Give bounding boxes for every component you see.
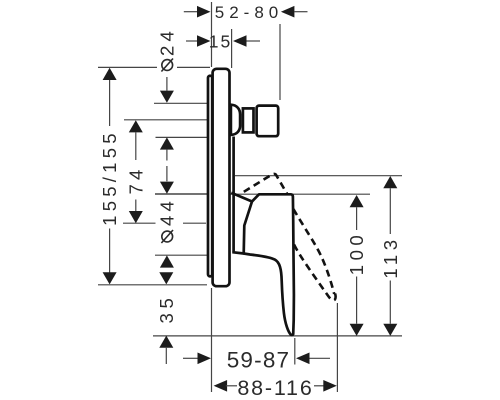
lever handle (solid) xyxy=(244,194,294,335)
wire: extension line x=280 for 52-80 right xyxy=(279,24,281,100)
dimension 52-80 xyxy=(184,3,308,22)
stub dome on plate face xyxy=(231,105,240,135)
stub cylinder xyxy=(243,108,254,132)
svg-text:88-116: 88-116 xyxy=(237,376,313,400)
dashed lever (open position): top edge xyxy=(244,174,287,194)
dimension 113 (stem x=390.3) xyxy=(380,176,401,336)
wire: extension line y=175.7 (dashed lever top) xyxy=(235,175,402,177)
escutcheon plate xyxy=(213,69,230,286)
dimension 59-87 xyxy=(183,348,330,373)
wire: extension line x=294.8 (handle tip) xyxy=(294,338,296,365)
svg-text:24: 24 xyxy=(156,27,177,56)
fixture: extension line y=194.2 (lever top plane, drawn before fixture) xyxy=(155,193,370,195)
wire: extension line x=231.6 for 15 xyxy=(231,29,233,68)
svg-text:35: 35 xyxy=(156,294,177,324)
wire: extension line y=223.2 (cartridge axis) xyxy=(123,222,156,224)
dimension 88-116 xyxy=(214,376,337,400)
wire: extension line y=255.2 (cone bottom) xyxy=(155,254,209,256)
cartridge sleeve line xyxy=(232,137,235,253)
handle cone top edge xyxy=(231,193,252,202)
dashed lever: blade right edge xyxy=(293,209,334,294)
dimension 74 (stem x=135.8) xyxy=(125,120,146,223)
svg-text:74: 74 xyxy=(125,165,146,194)
svg-text:113: 113 xyxy=(380,235,401,278)
svg-text:52-80: 52-80 xyxy=(215,3,283,22)
wire: extension line y=137.4 (stub bottom) xyxy=(156,136,209,138)
dimension 100 (stem x=356.6) xyxy=(346,195,367,336)
stub end block xyxy=(257,106,279,137)
svg-text:44: 44 xyxy=(156,197,177,226)
wire: extension line y=193.8 (cone top, left part) xyxy=(155,193,209,195)
wall flange (behind plate) xyxy=(208,76,212,277)
handle cone bottom edge xyxy=(232,252,243,253)
dimension 35 (col x=166.3) xyxy=(156,272,177,364)
wire: wall extension line top (x=211.5) xyxy=(211,2,213,67)
wire: extension line y=119.8 (stub axis) xyxy=(124,119,209,121)
svg-text:100: 100 xyxy=(346,231,367,276)
wire: extension line x=337.4 (dashed handle tip) xyxy=(336,303,338,392)
wire: bottom reference line y=335.9 xyxy=(153,335,402,337)
dimension Ø24 (stem x=166.9) xyxy=(156,27,177,181)
wire: extension line y=103.3 (stub top) xyxy=(154,102,209,104)
svg-text:155/155: 155/155 xyxy=(99,129,120,226)
dimension 155/155 (stem x=109.6) xyxy=(99,68,120,285)
svg-text:15: 15 xyxy=(209,32,232,52)
dimension Ø44 (stem x=166.9) xyxy=(156,182,177,268)
wire: extension line y=284.8 (plate bottom) xyxy=(98,284,207,286)
wire: extension line y=67.4 (plate top) xyxy=(98,66,210,68)
dashed lever: blade under edge and tip hook xyxy=(294,245,336,301)
svg-text:59-87: 59-87 xyxy=(227,348,291,373)
dimension 15 xyxy=(186,32,260,52)
wire: wall extension line bottom (x=211.5) xyxy=(211,288,213,392)
